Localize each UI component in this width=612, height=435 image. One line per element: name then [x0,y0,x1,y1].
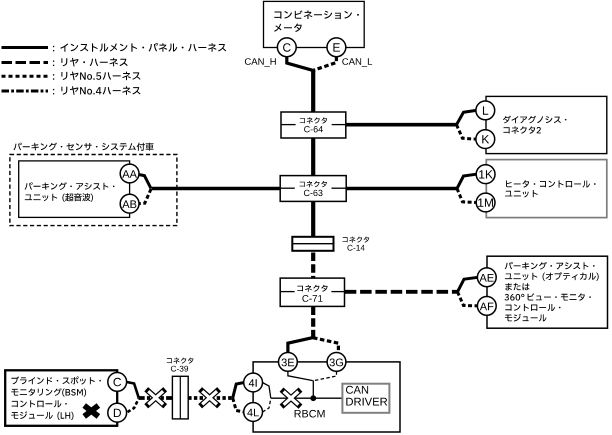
wire branch CAN_H to pin L [457,110,477,124]
label: DRIVER [346,398,387,406]
legend line: instrument panel harness (solid) [2,46,49,49]
label: diagnosis line2 [503,126,541,133]
fault mark X inside BSM module [84,406,98,417]
legend label: rear No.5 harness [53,72,141,81]
label: optical line6 [505,314,547,322]
module: heater control unit [486,160,607,218]
label: connector C-71 (katakana) [297,285,327,292]
connector C-39 middle line [179,376,181,419]
label: heater line2 [505,190,538,198]
pin C of BSM module [108,373,127,392]
label: with parking sensor system [14,143,154,151]
wire inside RBCM: 4I/4L merge to junction dot [271,397,314,399]
wire branch CAN_L to pin K (dashed) [457,125,476,139]
label: diagnosis line1 [503,116,567,124]
boundary: parking sensor system (dashed) [10,155,177,226]
pin AA of parking assist unit [120,164,139,183]
module: combination meter [264,1,365,47]
wire inside RBCM: merge point down to junction dot [312,380,314,398]
label: connector C-63 (katakana) [300,181,327,187]
wire: C-63 to heater control unit [346,187,457,191]
label: BSM line3 [12,400,67,407]
wire stub inside C-71 right [331,291,344,293]
wire inside RBCM: elbow from 4L (dashed) [262,399,270,412]
label: optical line3 [505,283,529,291]
pin E of combination meter [327,38,346,57]
wire stub inside C-71 left [281,291,295,293]
wire stub inside C-64 right [332,124,346,126]
wire branch CAN_L to pin AF (dashed) [458,292,479,306]
pin L of diagnosis connector [476,101,495,120]
wire: C-64 to diagnosis connector [346,123,458,127]
fault mark X inside RBCM [282,390,301,407]
module: parking assist unit (ultrasonic) [19,161,130,218]
fault mark X on wire right of C-39 [200,389,219,406]
wire: C-39 to RBCM 4I/4L (rear No.5 dotted) [188,396,233,400]
wire branch CAN_H to pin AE [458,277,479,292]
fault mark X on wire left of C-39 [146,389,165,406]
junction dot inside RBCM [310,395,316,401]
wire: C-71 to parking assist optical (rear harness dashed) [345,290,458,294]
label: CAN [346,386,368,394]
pin AE of parking assist optical [477,268,496,287]
connector C-64 [281,112,346,138]
wire CAN_H from pin C to trunk junction [287,57,313,71]
pin 4I of RBCM [244,373,263,392]
pin C of combination meter [277,38,296,57]
connector C-71 [280,278,344,306]
wire inside RBCM: 3E down to merge point [288,371,313,380]
label: C-64 [304,126,323,132]
legend label: rear harness [53,58,128,67]
pin 3E of RBCM [279,353,298,372]
connector C-14 middle line [292,243,333,245]
wire: trunk C-71 to RBCM split (dashed) [311,307,315,339]
label: connector C-64 (katakana) [300,117,327,123]
label: BSM line4 [11,411,73,420]
label: optical line5 [505,304,560,311]
label: optical line2 [505,272,599,281]
wire stub inside C-63 left [281,187,295,189]
wire: trunk C-14 to C-71 (rear harness dashed) [311,253,315,279]
wire branch CAN_L to pin 1M (dashed) [457,189,476,203]
pin 1K of heater control unit [476,165,495,184]
wire from pin C to junction [126,382,139,398]
wire stub inside C-64 left [282,124,296,126]
pin K of diagnosis connector [476,130,495,149]
label: combination meter line1 [274,10,359,19]
label: connector C-39 (katakana) [167,358,194,364]
pin D of BSM module [108,403,127,422]
legend line: rear No.5 harness (dotted) [2,75,49,78]
net label CAN_H [245,58,276,67]
wire branch CAN_L to pin 4L (dashed) [233,398,245,412]
wire inside RBCM: 3G down to merge point (dashed) [314,371,337,380]
wire inside RBCM: junction dot to CAN driver [313,397,342,399]
label: BSM line2 [11,388,86,397]
wire CAN_L from pin E to trunk junction (dashed) [314,57,337,71]
wire stub inside C-63 right [332,187,346,189]
pin AB of parking assist unit [120,194,139,213]
wire branch CAN_L trunk to pin 3G (dashed) [313,338,338,353]
wire: trunk C-64 to C-63 [311,138,315,177]
legend line: rear harness (dashed) [2,61,49,64]
component: CAN driver [342,384,389,413]
pin 3G of RBCM [327,353,346,372]
label: optical line1 [505,262,595,270]
pin 4L of RBCM [244,403,263,422]
label: RBCM [295,410,325,418]
wire branch CAN_H to pin AA [134,174,151,189]
label: C-14 [347,245,364,251]
module: diagnosis connector 2 [486,96,607,153]
legend label: rear No.4 harness [53,86,141,95]
wire: C-63 to parking assist unit [152,187,281,191]
wire branch CAN_H to pin 1K [457,174,476,188]
pin 1M of heater control unit [476,193,495,212]
label: C-71 [302,295,322,302]
wire: trunk C-63 to C-14 [311,201,315,237]
wire: trunk junction to connector C-64 [311,69,315,112]
connector C-63 [280,176,346,202]
legend line: rear No.4 harness (dash-dot) [2,90,49,93]
wire: BSM to C-39 (rear No.4 dash-dot) [139,396,173,400]
connector C-14 [292,237,333,251]
module: RBCM [253,362,400,432]
wire branch CAN_H trunk to pin 3E [288,337,314,353]
net label CAN_L [342,58,372,67]
label: connector C-14 (katakana) [343,237,370,243]
label: parking assist line2 [25,193,93,202]
pin AF of parking assist optical [477,297,496,316]
label: parking assist line1 [25,182,115,190]
wire branch CAN_L to pin AB (dashed) [135,189,151,204]
connector C-39 [172,376,188,419]
module: blind spot monitoring control module LH [5,370,117,426]
label: optical line4 [505,293,591,300]
label: BSM line1 [11,376,101,384]
wire inside RBCM: elbow from 4I [262,383,270,399]
legend label: instrument panel harness [53,43,226,52]
module: parking assist unit optical / 360 view monitor [487,256,608,328]
label: C-39 [171,366,188,372]
label: C-63 [304,190,323,196]
label: combination meter line2 [274,24,302,33]
label: heater line1 [506,180,596,187]
wire branch CAN_H to pin 4I [233,383,245,399]
wire from pin D to junction (dashed) [128,399,139,413]
